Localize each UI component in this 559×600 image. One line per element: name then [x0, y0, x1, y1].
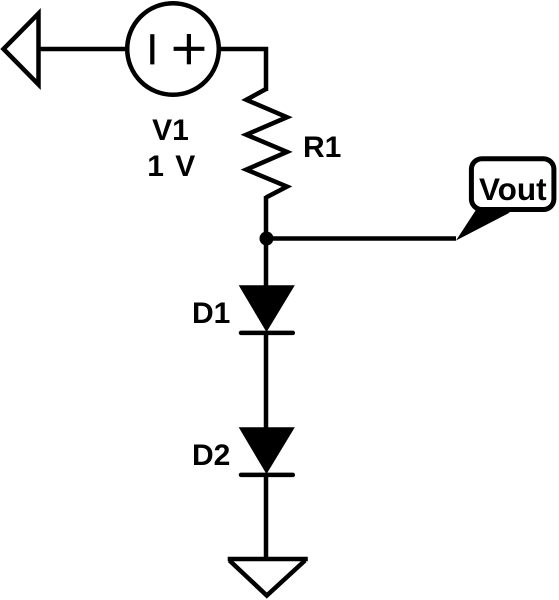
V1 minus terminal bar	[150, 34, 154, 64]
resistor R1 zigzag	[246, 89, 287, 198]
svg-text:1 V: 1 V	[147, 150, 197, 183]
wire from D1 to D2	[264, 331, 269, 429]
svg-text:D1: D1	[192, 297, 230, 330]
diode D1 triangle	[240, 286, 294, 331]
svg-text:V1: V1	[152, 114, 189, 147]
wire from R1 to node	[264, 196, 269, 240]
wire from arrow to V1	[39, 47, 128, 52]
svg-text:D2: D2	[192, 439, 230, 472]
svg-text:R1: R1	[303, 131, 341, 164]
diode D1 cathode bar	[241, 331, 293, 336]
net flag arrow (left)	[4, 14, 39, 85]
Vout flag bubble	[471, 159, 554, 210]
Vout flag tail	[456, 206, 510, 241]
wire from D2 to ground	[264, 473, 269, 559]
diode D2 triangle	[240, 428, 294, 473]
V1 plus sign	[174, 34, 205, 64]
wire from node down to D1	[264, 238, 269, 287]
wire from V1 to resistor R1	[218, 49, 266, 91]
ground symbol	[228, 559, 308, 596]
svg-text:Vout: Vout	[479, 171, 547, 207]
wire from node to Vout flag	[266, 236, 456, 241]
voltage source V1 circle	[127, 3, 219, 95]
node junction dot	[260, 232, 274, 246]
diode D2 cathode bar	[241, 473, 293, 478]
